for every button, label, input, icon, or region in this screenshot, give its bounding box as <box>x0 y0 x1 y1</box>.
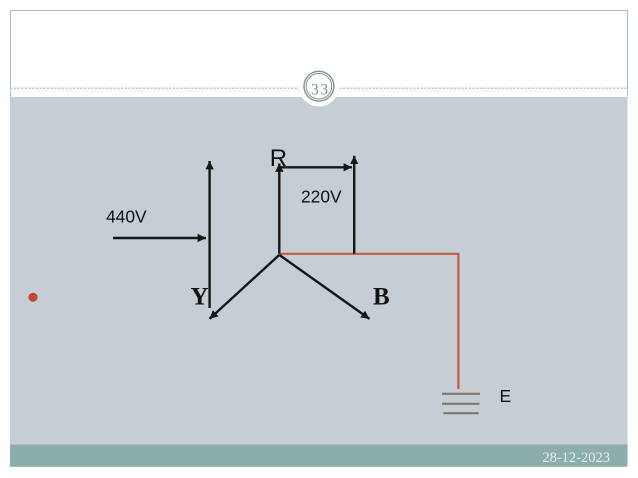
svg-text:33: 33 <box>311 82 330 99</box>
svg-text:28-12-2023: 28-12-2023 <box>542 450 610 466</box>
svg-text:440V: 440V <box>106 207 147 227</box>
svg-text:220V: 220V <box>301 187 342 207</box>
svg-text:E: E <box>500 386 512 406</box>
svg-text:Y: Y <box>191 284 209 311</box>
svg-text:R: R <box>270 145 287 172</box>
svg-text:B: B <box>373 284 390 311</box>
